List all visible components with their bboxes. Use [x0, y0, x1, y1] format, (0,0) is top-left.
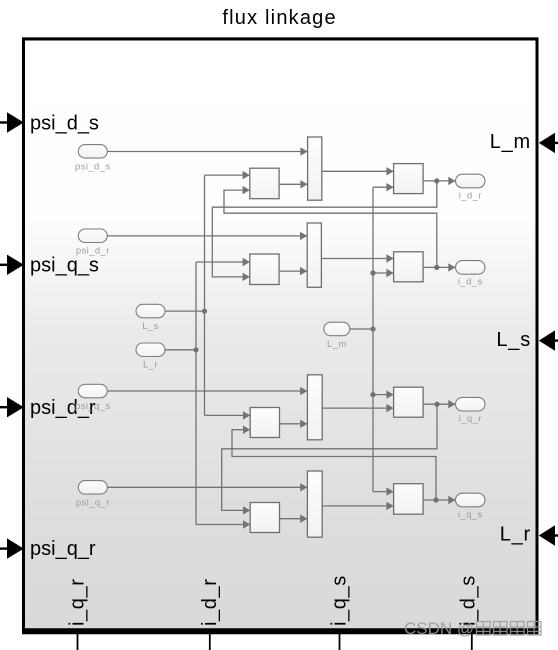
svg-text:psi_q_s: psi_q_s — [30, 254, 99, 276]
svg-text:flux linkage: flux linkage — [222, 7, 336, 29]
svg-text:CSDN @: CSDN @ — [404, 619, 474, 638]
wire S2 to B2 — [321, 254, 393, 262]
wire A4 to S4 — [280, 515, 308, 523]
wire B4 to i_q_s — [423, 496, 455, 504]
svg-text:L_s: L_s — [496, 329, 531, 351]
svg-text:i_d_r: i_d_r — [459, 190, 482, 201]
sum block S1 — [308, 137, 322, 200]
svg-text:i_d_s: i_d_s — [458, 277, 483, 288]
product block A4 — [250, 503, 279, 533]
wire L_s bus to A3 — [205, 411, 251, 419]
svg-text:L_r: L_r — [143, 360, 158, 371]
inport block psi_q_s — [78, 384, 107, 398]
wire psi_q_r to S4 — [107, 483, 307, 491]
outport block i_q_r — [456, 397, 486, 411]
svg-text:psi_q_r: psi_q_r — [76, 497, 110, 508]
svg-text:i_q_s: i_q_s — [458, 509, 483, 520]
junction node i_q_s — [433, 497, 438, 502]
svg-text:L_m: L_m — [490, 131, 531, 153]
svg-text:L_r: L_r — [500, 524, 531, 546]
wire feedback i_d_r to A2 — [212, 181, 436, 281]
wire A3 to S3 — [280, 420, 308, 428]
junction node L_s — [202, 309, 207, 314]
wire feedback i_q_r to A4 — [222, 404, 437, 514]
wire L_m bus vertical — [372, 187, 374, 491]
svg-text:i_d_r: i_d_r — [199, 579, 221, 626]
input port arrow psi_q_r — [0, 538, 24, 558]
junction node i_d_r — [434, 178, 439, 183]
product block B2 — [394, 252, 424, 282]
svg-text:L_s: L_s — [142, 321, 159, 332]
junction node i_d_s — [434, 265, 439, 270]
wire L_m bus to B1 — [373, 183, 394, 191]
input port arrow psi_d_r — [0, 397, 24, 417]
wire L_s to node — [165, 310, 205, 312]
wire A2 to S2 — [279, 267, 307, 275]
outport block i_q_s — [456, 493, 486, 507]
wire A1 to S1 — [279, 180, 308, 188]
inport block L_m — [324, 322, 350, 336]
wire feedback i_q_s to A3 — [232, 426, 436, 501]
input port arrow psi_d_s — [0, 112, 24, 132]
wire feedback i_d_s to A1 — [224, 186, 437, 268]
wire S4 to B4 — [322, 502, 393, 510]
junction node L_m — [370, 326, 375, 331]
product block A2 — [250, 254, 279, 285]
wire L_m bus to B2 — [373, 269, 394, 277]
svg-text:psi_d_s: psi_d_s — [75, 161, 111, 172]
sum block S3 — [307, 375, 322, 440]
wire L_r to node — [165, 349, 196, 351]
junction node i_q_r — [434, 402, 439, 407]
wire B2 to i_d_s — [423, 263, 455, 271]
junction node B3 tap — [370, 392, 375, 397]
wire L_m bus to B3 — [373, 390, 394, 398]
inport block psi_q_r — [78, 481, 107, 495]
output port stub i_d_s — [471, 634, 473, 650]
inport block psi_d_r — [78, 229, 107, 243]
input port arrow L_r — [539, 525, 558, 545]
svg-text:L_m: L_m — [327, 339, 347, 350]
wire L_s bus vertical — [204, 175, 206, 415]
wire L_m to node — [350, 328, 373, 330]
sum block S2 — [307, 223, 321, 287]
product block A1 — [250, 168, 279, 199]
wire psi_d_r to S2 — [107, 232, 307, 240]
watermark CSDN — [404, 619, 541, 638]
product block A3 — [250, 408, 279, 438]
product block B4 — [394, 484, 424, 515]
output port stub i_q_r — [77, 634, 79, 650]
svg-text:psi_d_r: psi_d_r — [76, 246, 110, 257]
inport block L_r — [136, 343, 165, 357]
sum block S4 — [307, 471, 322, 537]
inport block psi_d_s — [78, 145, 107, 159]
output port stub i_q_s — [339, 634, 341, 650]
wire L_r bus to A2 — [196, 258, 250, 266]
junction node B2 tap — [370, 270, 375, 275]
svg-text:psi_q_r: psi_q_r — [30, 538, 96, 560]
wire L_s bus to A1 — [205, 171, 250, 179]
wire B3 to i_q_r — [423, 400, 455, 408]
wire S1 to B1 — [322, 167, 394, 175]
wire L_r bus to A4 — [196, 520, 250, 528]
output port stub i_d_r — [209, 634, 211, 650]
wire S3 to B3 — [322, 404, 393, 412]
wire B1 to i_d_r — [423, 177, 455, 185]
wire L_r bus vertical — [195, 262, 197, 525]
input port arrow L_s — [539, 330, 558, 350]
input port arrow L_m — [539, 133, 558, 153]
wire L_m bus to B4 — [373, 487, 394, 495]
svg-text:i_q_r: i_q_r — [67, 579, 89, 626]
inport block L_s — [136, 304, 165, 318]
svg-text:psi_d_s: psi_d_s — [30, 112, 99, 134]
svg-text:i_q_r: i_q_r — [459, 414, 482, 425]
svg-text:psi_q_s: psi_q_s — [75, 401, 111, 412]
wire psi_d_s to S1 — [107, 147, 307, 155]
junction node L_r — [193, 347, 198, 352]
outport block i_d_r — [456, 174, 486, 188]
product block B1 — [394, 164, 424, 194]
product block B3 — [394, 387, 424, 417]
outport block i_d_s — [456, 261, 486, 275]
wire psi_q_s to S3 — [107, 387, 307, 395]
svg-text:i_q_s: i_q_s — [329, 575, 351, 626]
input port arrow psi_q_s — [0, 255, 24, 275]
